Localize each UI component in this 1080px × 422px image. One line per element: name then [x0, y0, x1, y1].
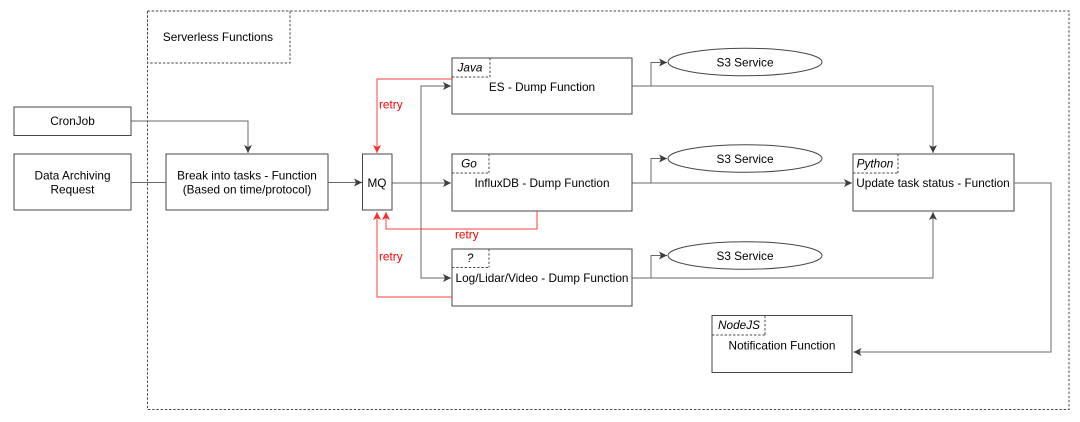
tag NodeJS — [712, 316, 765, 336]
red wire retry: ES to MQ (top) — [377, 79, 452, 153]
svg-text:S3 Service: S3 Service — [716, 56, 773, 70]
svg-text:Request: Request — [51, 183, 96, 197]
svg-text:Log/Lidar/Video - Dump Functio: Log/Lidar/Video - Dump Function — [456, 271, 629, 285]
svg-text:Break into tasks - Function: Break into tasks - Function — [177, 169, 317, 183]
wire MQ branch to Log/Lidar/Video - Dump Function — [421, 183, 451, 278]
wire Log/Lidar/Video to Update task status (bottom) — [632, 212, 933, 278]
svg-text:?: ? — [467, 251, 474, 265]
svg-text:Serverless Functions: Serverless Functions — [163, 30, 273, 44]
svg-text:Data Archiving: Data Archiving — [34, 169, 110, 183]
wire ES to Update task status (top) — [632, 86, 933, 153]
tag ? — [452, 249, 489, 268]
wire InfluxDB to S3 Service 2 — [632, 159, 667, 184]
box MQ — [363, 154, 393, 210]
wire Break into tasks to MQ — [328, 182, 362, 184]
wire Update task status to Notification Function — [854, 183, 1052, 352]
box CronJob — [14, 107, 131, 136]
svg-text:S3 Service: S3 Service — [716, 152, 773, 166]
svg-text:InfluxDB - Dump Function: InfluxDB - Dump Function — [474, 176, 609, 190]
ellipse S3 Service 2 — [668, 145, 822, 173]
box Data Archiving Request — [14, 154, 131, 210]
red wire retry: Log/Lidar/Video to MQ (bottom) — [377, 212, 452, 297]
box ES - Dump Function — [452, 58, 632, 114]
svg-text:retry: retry — [379, 250, 403, 264]
svg-text:(Based on time/protocol): (Based on time/protocol) — [183, 183, 312, 197]
ellipse S3 Service 3 — [668, 242, 822, 270]
svg-text:MQ: MQ — [367, 176, 386, 190]
tag Java — [452, 58, 490, 77]
wire CronJob to Break into tasks — [131, 121, 248, 153]
wire Log/Lidar/Video to S3 Service 3 — [632, 256, 667, 279]
svg-text:retry: retry — [455, 228, 479, 242]
tag Python — [853, 154, 898, 173]
svg-text:ES - Dump Function: ES - Dump Function — [489, 80, 595, 94]
box Update task status - Function — [853, 154, 1014, 211]
wire Data Archiving Request to Break into tasks — [131, 182, 166, 184]
svg-text:Go: Go — [461, 157, 477, 171]
svg-text:retry: retry — [379, 98, 403, 112]
box Notification Function — [712, 316, 852, 373]
box InfluxDB - Dump Function — [452, 154, 632, 211]
label box: Serverless Functions — [148, 11, 291, 63]
svg-text:S3 Service: S3 Service — [716, 249, 773, 263]
svg-text:Java: Java — [457, 61, 483, 75]
box Break into tasks - Function — [166, 154, 328, 210]
wire MQ to InfluxDB - Dump Function — [392, 182, 451, 184]
wire MQ branch to ES - Dump Function — [421, 86, 451, 183]
tag Go — [452, 154, 489, 173]
svg-text:Update task status - Function: Update task status - Function — [856, 176, 1009, 190]
box Log/Lidar/Video - Dump Function — [452, 249, 632, 306]
svg-text:Notification Function: Notification Function — [729, 339, 836, 353]
svg-text:Python: Python — [857, 157, 894, 171]
svg-text:CronJob: CronJob — [50, 114, 95, 128]
red label retry 2 — [455, 228, 479, 242]
red wire retry: InfluxDB to MQ (bottom) — [386, 211, 537, 229]
red label retry 1 — [379, 98, 403, 112]
wire InfluxDB to Update task status (left) — [632, 182, 852, 184]
wire ES to S3 Service 1 — [632, 63, 667, 87]
ellipse S3 Service 1 — [668, 48, 822, 76]
red label retry 3 — [379, 250, 403, 264]
svg-text:NodeJS: NodeJS — [718, 318, 760, 332]
